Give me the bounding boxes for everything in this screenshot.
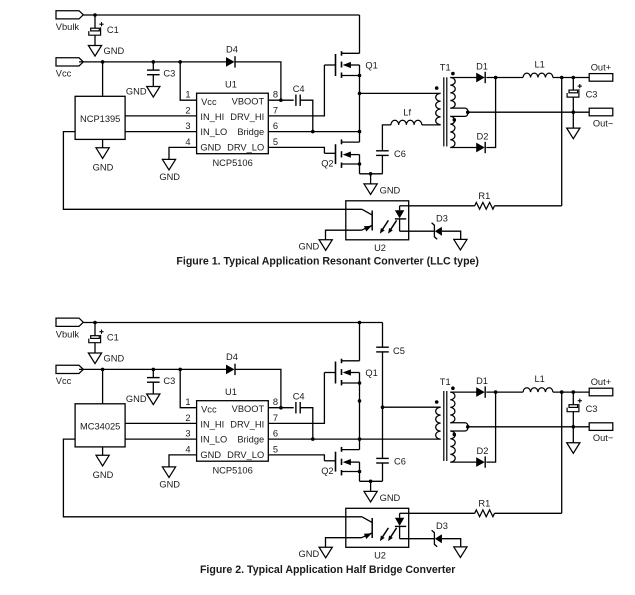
node feedback junction (fig2) <box>560 390 564 394</box>
wire U2 emitter to ground (fig1) <box>326 230 362 240</box>
svg-text:Lf: Lf <box>403 108 411 118</box>
node bridge rail pin6 junction (fig1) <box>358 130 362 134</box>
wire primary bottom to Lf (fig1) <box>422 124 441 126</box>
wire D2 cathode up (fig1) <box>486 78 495 148</box>
wire ground stub (fig2) <box>370 481 372 491</box>
wire pin8 to C4 (fig1) <box>268 99 293 101</box>
wire DRV_LO to Q2 gate (fig1) <box>268 147 324 153</box>
transformer T1 secondary top winding (fig2) <box>450 392 455 423</box>
wire C5 to mid node (fig2) <box>382 352 384 459</box>
wire center tap upper lead (fig1) <box>450 108 468 112</box>
ground below C3 (fig1) <box>126 86 160 97</box>
svg-text:GND: GND <box>299 241 320 251</box>
ground below controller (fig1) <box>93 148 114 173</box>
svg-text:3: 3 <box>185 429 190 439</box>
wire U2 emitter to ground (fig2) <box>326 538 362 548</box>
wire U2 cathode to D3 (fig1) <box>400 230 435 232</box>
node T1 secondary top polarity dot (fig1) <box>451 72 455 76</box>
capacitor C3 output (fig1) <box>567 84 597 100</box>
transformer T1 core (fig2) <box>444 391 447 461</box>
diode D2 (fig2) <box>477 446 489 468</box>
optocoupler U2 box (fig2) <box>346 508 409 560</box>
caption figure 2 <box>200 564 455 576</box>
transformer T1 secondary top winding (fig1) <box>450 78 455 109</box>
wire D1 cathode to L1 (fig1) <box>486 77 523 79</box>
wire Bridge pin6 to half-bridge (fig1) <box>268 131 359 133</box>
svg-text:5: 5 <box>273 444 278 454</box>
node Vbulk-C1 junction (fig2) <box>93 321 97 325</box>
svg-text:8: 8 <box>273 397 278 407</box>
connector Vcc (fig2) <box>56 365 84 386</box>
svg-text:4: 4 <box>185 137 190 147</box>
transistor Q1 (fig1) <box>324 51 377 78</box>
svg-text:GND: GND <box>126 86 147 96</box>
svg-text:C6: C6 <box>394 457 406 467</box>
node top-rail Q1 junction (fig2) <box>358 321 362 325</box>
ground below U2 emitter (fig2) <box>299 547 333 559</box>
connector Out- (fig1) <box>589 108 613 128</box>
svg-text:C6: C6 <box>394 149 406 159</box>
svg-text:GND: GND <box>93 162 114 172</box>
svg-text:L1: L1 <box>535 374 545 384</box>
wire Vcc rail (fig2) <box>79 368 226 370</box>
ground below D3 (fig2) <box>454 547 467 558</box>
connector Out- (fig2) <box>589 423 613 443</box>
U2 light arrows (fig2) <box>380 528 397 541</box>
svg-text:Vcc: Vcc <box>201 97 217 107</box>
wire pin8 to C4 (fig2) <box>268 407 293 409</box>
diode D4 (fig1) <box>226 45 238 68</box>
node VBOOT junction (fig1) <box>279 98 283 102</box>
svg-text:D3: D3 <box>436 521 448 531</box>
svg-text:6: 6 <box>273 429 278 439</box>
node Vcc-C3 junction (fig1) <box>152 60 156 64</box>
wire secondary top lead to D1 (fig2) <box>450 391 476 393</box>
svg-text:DRV_HI: DRV_HI <box>230 112 264 122</box>
optocoupler U2 box (fig1) <box>346 201 409 253</box>
wire Bridge pin6 to primary bottom (fig2) <box>268 438 440 440</box>
svg-text:Vbulk: Vbulk <box>56 22 80 32</box>
wire controller feedback to optocoupler (fig2) <box>63 439 362 517</box>
wire center tap to Out- (fig2) <box>468 426 589 428</box>
wire center tap upper lead (fig2) <box>450 423 468 427</box>
wire C3 bottom lead (fig1) <box>152 75 154 87</box>
svg-text:Figure 2. Typical Application: Figure 2. Typical Application Half Bridg… <box>200 564 455 576</box>
svg-text:Q1: Q1 <box>365 368 377 378</box>
wire top rail to C5 (fig2) <box>382 323 384 348</box>
svg-text:R1: R1 <box>478 499 490 509</box>
node rectifier output junction (fig1) <box>494 76 498 80</box>
svg-text:Out−: Out− <box>593 433 613 443</box>
svg-text:NCP5106: NCP5106 <box>212 158 252 168</box>
wire R1 to feedback vertical (fig2) <box>495 512 562 514</box>
wire Vcc rail (fig1) <box>79 61 226 63</box>
wire U2 anode out (fig1) <box>400 205 409 207</box>
wire feedback vertical (fig2) <box>561 392 563 513</box>
svg-text:D3: D3 <box>436 214 448 224</box>
node Q1 source junction (fig1) <box>358 74 362 78</box>
node capacitor divider mid (fig2) <box>381 405 385 409</box>
wire pin4 GND stub (fig2) <box>169 455 197 467</box>
svg-text:Q2: Q2 <box>321 466 333 476</box>
svg-text:Bridge: Bridge <box>237 127 264 137</box>
wire controller GND stub (fig2) <box>102 447 104 455</box>
wire pin4 GND stub (fig1) <box>169 147 197 159</box>
capacitor C1 (fig2) <box>89 330 119 343</box>
wire C1 top lead (fig2) <box>94 323 96 336</box>
U2 LED (fig1) <box>395 206 406 231</box>
svg-text:GND: GND <box>200 143 221 153</box>
svg-text:GND: GND <box>93 470 114 480</box>
wire R1 to optocoupler (fig1) <box>409 205 475 207</box>
svg-text:D2: D2 <box>477 132 489 142</box>
svg-text:MC34025: MC34025 <box>80 422 120 432</box>
wire controller to IN_LO (fig2) <box>125 438 197 440</box>
wire C3 output bottom lead (fig2) <box>572 412 574 427</box>
node C3 output junction top (fig2) <box>572 390 576 394</box>
ground below pin4 (fig1) <box>159 159 180 182</box>
node C3 output junction top (fig1) <box>572 76 576 80</box>
svg-text:DRV_LO: DRV_LO <box>227 450 264 460</box>
node Q1 source junction (fig2) <box>358 381 362 385</box>
wire Q1 drain rail (fig2) <box>359 323 361 361</box>
wire center tap lower lead (fig2) <box>450 427 468 431</box>
op-amp driver U1 NCP5106 (fig1) <box>197 79 269 167</box>
wire Q1 source to Q2 drain rail (fig2) <box>359 373 361 450</box>
node C4-bridge junction (fig1) <box>311 130 315 134</box>
U2 light arrows (fig1) <box>380 220 397 233</box>
svg-text:C3: C3 <box>586 404 598 414</box>
svg-text:1: 1 <box>185 397 190 407</box>
capacitor C1 (fig1) <box>89 22 119 35</box>
caption figure 1 <box>176 256 479 268</box>
svg-text:C3: C3 <box>163 376 175 386</box>
svg-text:5: 5 <box>273 137 278 147</box>
op-amp driver U1 NCP5106 (fig2) <box>197 387 269 476</box>
svg-text:Vcc: Vcc <box>201 404 217 414</box>
capacitor C3 decoupling (fig2) <box>147 376 175 386</box>
resistor R1 (fig1) <box>475 191 495 209</box>
wire DRV_HI to Q1 gate (fig2) <box>268 373 324 424</box>
wire Q2 source rail (fig2) <box>359 462 361 481</box>
diode D3 zener (fig2) <box>432 521 448 547</box>
wire secondary top lead to D1 (fig1) <box>450 77 476 79</box>
transformer T1 core (fig1) <box>444 77 447 146</box>
wire C3 top lead (fig1) <box>152 62 154 70</box>
svg-text:C4: C4 <box>293 391 305 401</box>
connector Out+ (fig2) <box>589 377 613 396</box>
wire center tap lower lead (fig1) <box>450 112 468 116</box>
svg-text:GND: GND <box>380 493 401 503</box>
wire C3 top lead (fig2) <box>152 369 154 377</box>
svg-text:GND: GND <box>299 549 320 559</box>
wire source ground rail (fig1) <box>360 173 383 175</box>
capacitor C4 (fig2) <box>293 391 305 413</box>
svg-text:Vcc: Vcc <box>56 69 72 79</box>
diode D1 (fig1) <box>476 62 488 84</box>
svg-text:GND: GND <box>126 394 147 404</box>
inductor L1 (fig1) <box>523 59 553 77</box>
svg-text:Out−: Out− <box>593 119 613 129</box>
wire L1 to output (fig1) <box>553 77 589 79</box>
svg-text:U1: U1 <box>225 387 237 397</box>
node T1 primary polarity dot (fig2) <box>435 400 439 404</box>
svg-text:IN_LO: IN_LO <box>200 434 227 444</box>
inductor Lf (fig1) <box>391 108 422 125</box>
wire C1 bottom lead (fig2) <box>94 343 96 353</box>
svg-text:D1: D1 <box>476 376 488 386</box>
wire C4 to bridge (fig2) <box>300 408 313 439</box>
inductor L1 (fig2) <box>523 374 553 392</box>
ground below Q2 source (fig1) <box>364 184 401 196</box>
wire C1 top lead (fig1) <box>94 15 96 28</box>
wire D3 anode to ground (fig2) <box>442 539 461 547</box>
wire C3 bottom lead (fig2) <box>152 382 154 394</box>
wire Q1 drain rail (fig1) <box>359 15 361 53</box>
node center tap junction (fig1) <box>466 110 470 114</box>
svg-text:D2: D2 <box>477 446 489 456</box>
node center tap junction (fig2) <box>466 425 470 429</box>
svg-text:R1: R1 <box>478 191 490 201</box>
svg-text:GND: GND <box>380 185 401 195</box>
wire bridge to primary (fig1) <box>360 92 441 94</box>
svg-text:U2: U2 <box>374 551 386 561</box>
wire Q1 source to Q2 drain rail (fig1) <box>359 65 361 142</box>
node Q2 source junction (fig1) <box>358 162 362 166</box>
resistor R1 (fig2) <box>475 499 495 517</box>
svg-text:T1: T1 <box>440 377 451 387</box>
wire controller to IN_LO (fig1) <box>125 131 197 133</box>
wire center tap to Out- (fig1) <box>468 111 589 113</box>
wire output ground stub (fig2) <box>572 427 574 443</box>
capacitor C6 (fig1) <box>376 149 406 159</box>
wire output ground stub (fig1) <box>572 112 574 128</box>
svg-text:C4: C4 <box>293 84 305 94</box>
controller U NCP1395 (fig1) <box>75 96 125 139</box>
svg-text:GND: GND <box>104 354 125 364</box>
svg-text:C5: C5 <box>393 346 405 356</box>
svg-text:Vcc: Vcc <box>56 376 72 386</box>
ground below C3 (fig2) <box>126 394 160 405</box>
svg-text:D1: D1 <box>476 62 488 72</box>
wire D4 cathode to VBOOT (fig1) <box>235 62 281 100</box>
ground below C1 (fig1) <box>88 46 124 57</box>
wire R1 to feedback vertical (fig1) <box>495 205 562 207</box>
svg-text:Q2: Q2 <box>321 159 333 169</box>
wire C6 to ground rail (fig2) <box>382 463 384 481</box>
node ground rail junction (fig1) <box>369 172 373 176</box>
node T1 secondary bottom polarity dot (fig2) <box>453 433 457 437</box>
node C3 output junction bottom (fig2) <box>572 425 576 429</box>
ground below U2 emitter (fig1) <box>299 240 333 252</box>
svg-text:C1: C1 <box>107 332 119 342</box>
svg-text:Figure 1. Typical Application: Figure 1. Typical Application Resonant C… <box>176 256 479 268</box>
ground below C1 (fig2) <box>88 353 124 364</box>
transistor Q2 (fig1) <box>321 139 359 168</box>
capacitor C4 (fig1) <box>293 84 305 106</box>
wire controller to IN_HI (fig1) <box>125 115 197 117</box>
wire U2 cathode to D3 (fig2) <box>400 538 435 540</box>
node C3 output junction bottom (fig1) <box>572 110 576 114</box>
connector Vbulk (fig1) <box>56 11 84 33</box>
U1 pin numbers (fig1) <box>185 90 278 147</box>
wire controller to IN_HI (fig2) <box>125 422 197 424</box>
controller U MC34025 (fig2) <box>75 404 125 447</box>
transistor Q1 (fig2) <box>324 359 377 386</box>
transformer T1 primary winding (fig2) <box>436 407 441 439</box>
wire C4 to bridge (fig1) <box>300 100 313 131</box>
diode D2 (fig1) <box>477 132 489 154</box>
node T1 secondary bottom polarity dot (fig1) <box>453 118 457 122</box>
svg-text:3: 3 <box>185 121 190 131</box>
svg-text:U2: U2 <box>374 243 386 253</box>
ground below D3 (fig1) <box>454 239 467 250</box>
wire DRV_LO to Q2 gate (fig2) <box>268 455 324 461</box>
wire pin1 Vcc stub (fig1) <box>180 62 196 100</box>
node Q2 source junction (fig2) <box>358 470 362 474</box>
svg-text:VBOOT: VBOOT <box>232 96 265 106</box>
svg-text:GND: GND <box>159 480 180 490</box>
svg-text:NCP5106: NCP5106 <box>212 465 252 475</box>
svg-text:C3: C3 <box>586 90 598 100</box>
wire secondary bottom lead to D2 (fig2) <box>450 461 476 463</box>
node Vbulk-C1 junction (fig1) <box>93 13 97 17</box>
svg-text:Q1: Q1 <box>365 60 377 70</box>
svg-text:Out+: Out+ <box>591 63 611 73</box>
wire Vcc tap to controller (fig2) <box>102 369 104 403</box>
diode D1 (fig2) <box>476 376 488 398</box>
svg-text:T1: T1 <box>440 63 451 73</box>
transformer T1 secondary bottom winding (fig1) <box>450 116 455 147</box>
ground below controller (fig2) <box>93 455 114 480</box>
ground output (fig1) <box>567 128 580 139</box>
svg-text:VBOOT: VBOOT <box>232 404 265 414</box>
wire secondary bottom lead to D2 (fig1) <box>450 147 476 149</box>
svg-text:7: 7 <box>273 413 278 423</box>
svg-text:8: 8 <box>273 90 278 100</box>
svg-text:C3: C3 <box>163 69 175 79</box>
svg-text:DRV_LO: DRV_LO <box>227 143 264 153</box>
wire Lf to C6 (fig1) <box>382 125 391 151</box>
svg-text:Vbulk: Vbulk <box>56 330 80 340</box>
capacitor C3 decoupling (fig1) <box>147 69 175 79</box>
node feedback junction (fig1) <box>560 76 564 80</box>
svg-text:C1: C1 <box>107 25 119 35</box>
transformer T1 primary winding (fig1) <box>436 93 441 124</box>
node bridge node (fig2) <box>358 399 362 403</box>
connector Vcc (fig1) <box>56 58 84 79</box>
wire D1 cathode to L1 (fig2) <box>486 391 523 393</box>
svg-text:Bridge: Bridge <box>237 434 264 444</box>
svg-text:IN_LO: IN_LO <box>200 127 227 137</box>
wire U2 anode out (fig2) <box>400 512 409 514</box>
svg-text:D4: D4 <box>226 45 238 55</box>
U2 phototransistor (fig2) <box>362 517 373 539</box>
wire feedback vertical (fig1) <box>561 78 563 206</box>
wire C3 output top lead (fig2) <box>572 392 574 405</box>
svg-text:GND: GND <box>104 46 125 56</box>
T1 label (fig1) <box>440 63 451 73</box>
node bridge rail pin6 junction (fig2) <box>358 437 362 441</box>
node T1 primary polarity dot (fig1) <box>435 86 439 90</box>
wire C3 output top lead (fig1) <box>572 78 574 91</box>
node Vcc-pin1 junction (fig1) <box>178 60 182 64</box>
wire DRV_HI to Q1 gate (fig1) <box>268 65 324 116</box>
ground below pin4 (fig2) <box>159 467 180 490</box>
node Vcc-C3 junction (fig2) <box>152 368 156 372</box>
wire C6 to ground rail (fig1) <box>381 155 383 173</box>
node VBOOT junction (fig2) <box>279 406 283 410</box>
node rectifier output junction (fig2) <box>494 390 498 394</box>
svg-text:GND: GND <box>200 450 221 460</box>
wire controller GND stub (fig1) <box>102 139 104 147</box>
wire D4 cathode to VBOOT (fig2) <box>235 369 281 407</box>
node Vcc-controller junction (fig1) <box>101 60 105 64</box>
wire Vbulk top rail (fig1) <box>84 14 360 16</box>
diode D3 zener (fig1) <box>432 214 448 240</box>
wire source ground rail (fig2) <box>360 480 383 482</box>
T1 label (fig2) <box>440 377 451 387</box>
svg-text:6: 6 <box>273 121 278 131</box>
svg-text:4: 4 <box>185 444 190 454</box>
transistor Q2 (fig2) <box>321 447 359 476</box>
wire D3 anode to ground (fig1) <box>442 231 461 239</box>
svg-text:Out+: Out+ <box>591 377 611 387</box>
wire L1 to output (fig2) <box>553 391 589 393</box>
wire ground stub (fig1) <box>370 174 372 184</box>
wire Q2 source rail (fig1) <box>359 155 361 174</box>
wire R1 to optocoupler (fig2) <box>409 512 475 514</box>
svg-text:IN_HI: IN_HI <box>200 112 224 122</box>
svg-text:1: 1 <box>185 90 190 100</box>
connector Vbulk (fig2) <box>56 318 84 340</box>
capacitor C6 (fig2) <box>376 457 406 467</box>
wire D2 cathode up (fig2) <box>486 392 495 462</box>
node C4-bridge junction (fig2) <box>311 437 315 441</box>
diode D4 (fig2) <box>226 352 238 375</box>
wire pin1 Vcc stub (fig2) <box>180 369 196 407</box>
ground output (fig2) <box>567 443 580 454</box>
wire Vcc tap to controller (fig1) <box>102 62 104 96</box>
svg-text:NCP1395: NCP1395 <box>80 114 120 124</box>
svg-text:L1: L1 <box>535 59 545 69</box>
svg-text:2: 2 <box>185 413 190 423</box>
wire C1 bottom lead (fig1) <box>94 35 96 45</box>
node T1 secondary top polarity dot (fig2) <box>451 386 455 390</box>
wire mid node to primary (fig2) <box>383 406 441 408</box>
svg-text:2: 2 <box>185 105 190 115</box>
U1 pin numbers (fig2) <box>185 397 278 454</box>
wire C3 output bottom lead (fig1) <box>572 97 574 112</box>
svg-text:GND: GND <box>159 172 180 182</box>
svg-text:IN_HI: IN_HI <box>200 419 224 429</box>
ground below Q2 source (fig2) <box>364 491 401 503</box>
node bridge node (fig1) <box>358 92 362 96</box>
svg-text:D4: D4 <box>226 352 238 362</box>
svg-text:DRV_HI: DRV_HI <box>230 419 264 429</box>
svg-text:7: 7 <box>273 105 278 115</box>
capacitor C3 output (fig2) <box>567 399 597 415</box>
wire Vbulk top rail (fig2) <box>84 322 383 324</box>
node Vcc-controller junction (fig2) <box>101 368 105 372</box>
U2 phototransistor (fig1) <box>362 209 373 231</box>
U2 LED (fig2) <box>395 513 406 538</box>
capacitor C5 (fig2) <box>376 346 405 356</box>
node Vcc-pin1 junction (fig2) <box>178 368 182 372</box>
svg-text:U1: U1 <box>225 79 237 89</box>
connector Out+ (fig1) <box>589 63 613 82</box>
node ground rail junction (fig2) <box>369 480 373 484</box>
